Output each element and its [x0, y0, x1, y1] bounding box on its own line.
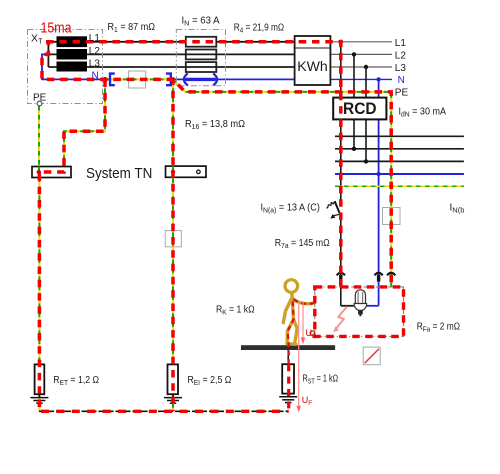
- LAYER: transformer: [28, 30, 103, 106]
- LAYER: fuse group: [176, 30, 225, 86]
- svg-text:L2: L2: [89, 46, 101, 57]
- LAYER: KWh meter: [295, 36, 331, 85]
- node L1: [339, 40, 343, 44]
- person left arm: [283, 300, 291, 323]
- fault path earth return: [39, 410, 289, 413]
- person front leg: [287, 320, 293, 344]
- person rear leg: [294, 320, 298, 344]
- LAYER: N measurement brackets: [103, 71, 176, 88]
- fault path around appliance chassis: [315, 287, 404, 337]
- sensor box on PEN: [129, 71, 146, 88]
- wire PE from transformer PE terminal down to earthing bar 1: [38, 106, 40, 167]
- svg-text:N: N: [398, 75, 405, 86]
- wire floor to RST: [287, 350, 289, 364]
- fuse F2: [186, 50, 217, 60]
- earth return dashed black: [39, 410, 289, 412]
- floor bar: [241, 345, 335, 350]
- LAYER: all text labels: [31, 16, 464, 408]
- node L3 bus: [364, 159, 368, 163]
- KWh meter box: [295, 36, 331, 85]
- node L1 bus: [339, 134, 343, 138]
- arrow PE up: [390, 275, 393, 282]
- arrow L up: [339, 275, 342, 282]
- ground RET: [30, 394, 48, 403]
- fault path through RST to earth: [287, 364, 290, 411]
- LAYER: verticals into RCD: [341, 42, 379, 306]
- PE terminal circle: [37, 101, 42, 106]
- node PE split at x173: [171, 77, 175, 81]
- LAYER: touch voltage arrows: [297, 301, 306, 412]
- wire L3 through fuse: [186, 66, 217, 68]
- resistor RST: [282, 364, 294, 393]
- bus L2: [335, 148, 464, 150]
- lamp CFL bulb: [354, 290, 366, 317]
- arrow N up: [377, 275, 380, 282]
- LAYER: circuit breaker: [326, 201, 341, 218]
- fuse F1: [186, 37, 217, 47]
- wire PEN green-yellow under brackets: [105, 78, 173, 80]
- svg-text:PE: PE: [33, 93, 47, 104]
- LAYER: PE conductors (yellow-green): [39, 79, 391, 411]
- LAYER: appliance: [310, 287, 403, 337]
- wire L3 after KWh: [330, 66, 392, 68]
- appliance chassis dash-dot box: [315, 287, 404, 337]
- LAYER: red fault-current overlay: [39, 41, 404, 412]
- fault path PE branch to appliance: [173, 79, 391, 287]
- LAYER: distribution buses: [335, 134, 464, 188]
- wire L1 transformer to KWh: [87, 41, 295, 43]
- svg-text:PE: PE: [395, 88, 409, 99]
- node L3: [364, 65, 368, 69]
- wire N drop blue: [378, 79, 380, 305]
- svg-text:L1: L1: [89, 33, 101, 44]
- wire L3 drop: [365, 67, 367, 161]
- svg-text:L2: L2: [395, 50, 407, 61]
- transformer winding L3: [57, 62, 88, 72]
- transformer winding L1: [57, 36, 88, 47]
- svg-text:RCD: RCD: [343, 100, 377, 118]
- resistor RET: [35, 364, 45, 394]
- person right arm touching appliance: [293, 299, 315, 304]
- breaker thermal squiggle: [326, 201, 334, 208]
- svg-text:L3: L3: [89, 58, 101, 69]
- wire N blue to KWh: [173, 78, 295, 80]
- LAYER: earth resistors: [30, 350, 297, 403]
- node PEN split: [103, 77, 108, 82]
- sensor box on PE drop 2: [165, 231, 181, 247]
- fault path through person: [288, 299, 315, 365]
- svg-text:N: N: [92, 71, 99, 82]
- bracket left blue: [110, 74, 115, 86]
- person torso: [292, 293, 294, 320]
- wire lamp left black: [341, 305, 355, 307]
- svg-text:KWh: KWh: [297, 59, 328, 74]
- fuse F3: [186, 62, 217, 72]
- fault path PE drop2 to REI: [171, 79, 175, 411]
- node L2 bus: [352, 147, 356, 151]
- LAYER: junction nodes after KWh: [339, 40, 381, 82]
- fault path PEN tap to earthing bar1 and RET: [39, 79, 105, 411]
- breaker trip arrow: [334, 214, 339, 215]
- fault path L1 from transformer to appliance drop: [46, 42, 341, 287]
- earthing bar 2: [166, 166, 207, 177]
- wire L2 after KWh: [330, 53, 392, 55]
- LAYER: RCD: [333, 98, 386, 120]
- LAYER: crossed square symbol: [363, 347, 380, 365]
- wire L3 transformer to KWh: [87, 66, 295, 68]
- wire N blue after KWh: [330, 78, 392, 80]
- breaker blade: [335, 201, 342, 217]
- RCD box: [333, 98, 386, 120]
- transformer star-point wiring: [48, 42, 56, 67]
- bus L3: [335, 160, 464, 162]
- node N: [376, 77, 380, 81]
- transformer XT dash-dot box: [28, 30, 103, 104]
- svg-text:RK = 1 kΩ: RK = 1 kΩ: [216, 305, 255, 317]
- bus L1: [335, 135, 464, 137]
- crossed square: [363, 347, 380, 365]
- wire PE through bar2 repaint: [172, 166, 174, 177]
- person foot: [287, 342, 296, 346]
- voltage line UB: [302, 302, 304, 339]
- svg-text:15ma: 15ma: [41, 20, 73, 37]
- svg-text:System TN: System TN: [86, 166, 152, 182]
- earthing bar 1 (main earthing terminal): [32, 167, 71, 178]
- fault lightning arrow: [335, 307, 347, 330]
- small circle in bar 2: [197, 170, 201, 174]
- wire L1 drop lower with breaker gap: [340, 119, 342, 305]
- wire L1 drop upper: [340, 42, 342, 98]
- LAYER: base lines: [42, 42, 392, 80]
- KWh divider line: [295, 47, 331, 49]
- node in bar 1: [37, 170, 41, 174]
- node L2: [352, 52, 356, 56]
- LAYER: earth return line: [39, 410, 289, 412]
- bus N blue: [335, 173, 464, 175]
- wire L2 transformer to KWh: [87, 53, 295, 55]
- resistor REI: [168, 364, 179, 394]
- node N bus: [376, 172, 380, 176]
- LAYER: earthing bars: [32, 166, 400, 247]
- touch point circle: [310, 331, 315, 336]
- wire N blue from star point: [42, 54, 105, 79]
- wire PEN tap down from node at x105 to earthing bar 1: [64, 79, 105, 172]
- ground RST: [279, 394, 297, 403]
- svg-text:L3: L3: [395, 63, 407, 74]
- wire PE below earthing bar 1 down to RET: [38, 178, 40, 412]
- ground REI: [164, 394, 182, 403]
- wire PE branch to distribution and appliance: [173, 79, 391, 287]
- svg-text:L1: L1: [395, 38, 407, 49]
- sensor box on PE drop right: [383, 208, 401, 225]
- wire PE through bar1 repaint: [38, 167, 40, 178]
- LAYER: person: [283, 280, 314, 345]
- person head: [285, 280, 298, 293]
- wire lamp right blue: [366, 305, 379, 307]
- fault path transformer star to PEN node: [42, 41, 173, 80]
- wire L1 after KWh: [330, 41, 392, 43]
- LAYER: current arrows into appliance: [337, 273, 396, 282]
- blue double arrow on N: [184, 73, 217, 85]
- fuse dash-dot box: [176, 30, 225, 86]
- bracket right blue: [166, 74, 171, 86]
- bus PE green-yellow: [335, 185, 464, 187]
- wire L2 through fuse: [186, 53, 217, 55]
- transformer winding L2: [57, 49, 88, 60]
- wire PE from node at x173 down through earthing bar 2 to REI: [172, 79, 174, 411]
- voltage line UF: [298, 301, 300, 408]
- node in bar 2: [171, 170, 175, 174]
- wire L2 drop: [353, 54, 355, 148]
